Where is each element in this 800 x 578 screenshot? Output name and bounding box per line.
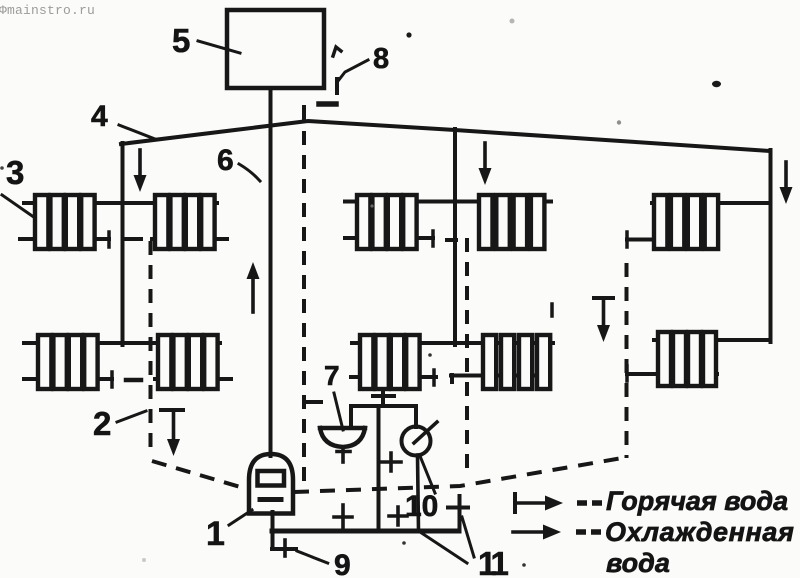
gauge leg (414, 406, 418, 427)
dashed return bottom run (294, 457, 628, 492)
radiator E (357, 195, 417, 249)
radiator D bottom pipe (155, 377, 231, 381)
row1 left top pipe (24, 201, 217, 205)
radiator J (658, 332, 716, 386)
right drop pipe (769, 150, 773, 342)
radiator I bottom pipe (627, 238, 718, 242)
radiator C bottom tick (110, 372, 114, 387)
radiator J bottom pipe (627, 372, 717, 376)
gauge 10 circle (402, 427, 431, 456)
boiler slot (260, 497, 281, 502)
radiator F bottom stub (447, 238, 456, 242)
svg-text:вода: вода (606, 548, 670, 578)
radiator D (158, 335, 218, 389)
leader 1 (229, 510, 252, 525)
svg-text:2: 2 (93, 405, 111, 442)
legend cold water symbol (513, 525, 601, 540)
svg-text:10: 10 (405, 490, 438, 523)
boiler window (258, 471, 285, 486)
svg-text:9: 9 (334, 549, 351, 578)
radiator A bottom tick (107, 232, 111, 247)
radiator B (155, 195, 215, 249)
funnel stem (341, 447, 345, 462)
row2 right top pipe (654, 338, 770, 342)
small stub mark (550, 304, 554, 316)
radiator C (38, 335, 98, 389)
funnel drain lower (341, 505, 345, 531)
drain valve tick 9 (283, 540, 287, 556)
svg-text:8: 8 (373, 43, 389, 75)
dashed return riser left (149, 241, 153, 457)
svg-text:5: 5 (172, 22, 190, 59)
leader 4 (119, 125, 155, 139)
funnel stem tick (337, 450, 350, 454)
radiator B bottom pipe (152, 237, 227, 241)
legend hot water symbol (515, 494, 602, 512)
scan speck dot3 (0, 166, 4, 170)
radiator G bottom tick (432, 370, 436, 385)
left drop pipe (121, 143, 125, 345)
svg-text:11: 11 (478, 545, 509, 578)
radiator F (479, 195, 544, 249)
svg-text:7: 7 (324, 360, 340, 391)
scan speck small2 (428, 353, 432, 357)
dashed return riser middle (from tank) (302, 107, 306, 121)
overflow hook (333, 47, 341, 56)
scan speck small4 (370, 204, 373, 207)
radiator G drain pipe (381, 390, 385, 406)
leader 7 (334, 393, 343, 430)
svg-text:3: 3 (6, 154, 24, 191)
main top supply line 4 (121, 121, 770, 151)
down arrow right (780, 162, 793, 204)
bottom header pipe (272, 529, 459, 534)
leader 11a (420, 532, 467, 563)
T-down arrow left (return flow) (161, 410, 183, 456)
radiator H bottom pipe (451, 375, 550, 382)
funnel 7 (320, 428, 365, 447)
radiator B bottom stub from pipe (123, 237, 141, 241)
row1 right top pipe (652, 201, 770, 205)
row2 middle top pipe (352, 341, 553, 345)
svg-text:Фmainstro.ru: Фmainstro.ru (0, 3, 95, 18)
gauge drain pipe (418, 455, 419, 531)
dash before riser (126, 378, 141, 383)
radiator A (35, 195, 95, 249)
leader 2 (117, 411, 146, 422)
valve tick (373, 394, 394, 398)
svg-text:Горячая вода: Горячая вода (606, 486, 788, 516)
up arrow on riser (247, 262, 260, 312)
radiator A bottom pipe (20, 237, 109, 241)
radiator J bottom tick (625, 366, 629, 381)
leader 8 (338, 60, 368, 81)
scan speck small (617, 120, 621, 124)
valve cross center (381, 453, 401, 471)
leader 3 (2, 195, 38, 220)
boiler drain stub (272, 512, 296, 549)
radiator E bottom pipe (345, 236, 433, 240)
funnel leg (349, 406, 353, 424)
radiator C bottom pipe (24, 377, 112, 381)
main riser 6 (269, 88, 273, 456)
right end valve cross (448, 506, 468, 510)
scan speck top (510, 19, 515, 24)
radiator H (483, 335, 550, 389)
radiator G (360, 335, 420, 389)
radiator E bottom tick (431, 231, 435, 246)
leader 11b (462, 517, 474, 557)
dash near funnel return (306, 400, 321, 404)
leader 5 (198, 41, 240, 53)
down arrow middle (479, 143, 492, 185)
expansion tank 5 (227, 10, 324, 88)
dashed return left diagonal (152, 461, 247, 489)
overflow horizontal dash (319, 101, 336, 107)
row2 left top pipe (24, 341, 220, 345)
boiler 1 (249, 454, 293, 514)
scan speck small3 (522, 563, 526, 567)
scan speck dot (406, 32, 411, 37)
radiator I (654, 195, 718, 249)
center drain pipe (377, 406, 381, 531)
middle drop pipe (453, 129, 457, 345)
overflow dash (335, 79, 339, 93)
down arrow left (134, 150, 147, 192)
T-down arrow right (return flow) (594, 298, 613, 342)
radiator G bottom pipe (351, 375, 436, 379)
svg-text:4: 4 (91, 100, 108, 133)
dashed return riser right (625, 263, 629, 458)
leader 10 (420, 456, 435, 493)
scan speck right (712, 81, 721, 87)
svg-text:1: 1 (206, 515, 225, 553)
gauge handle (414, 422, 437, 443)
leader 9 (297, 551, 330, 564)
svg-text:6: 6 (217, 144, 234, 177)
faint speck (142, 558, 146, 562)
manifold (351, 404, 416, 408)
valve cross funnel drain (334, 515, 352, 519)
radiator I bottom tick (625, 232, 629, 247)
valve cross lower (389, 507, 407, 525)
leader 6 (239, 164, 260, 181)
right end riser (458, 496, 462, 531)
scan speck dot2 (402, 541, 406, 545)
row1 middle top pipe (345, 200, 551, 204)
svg-text:Охлажденная: Охлажденная (605, 517, 795, 547)
dashed return riser mid-right (465, 238, 469, 478)
